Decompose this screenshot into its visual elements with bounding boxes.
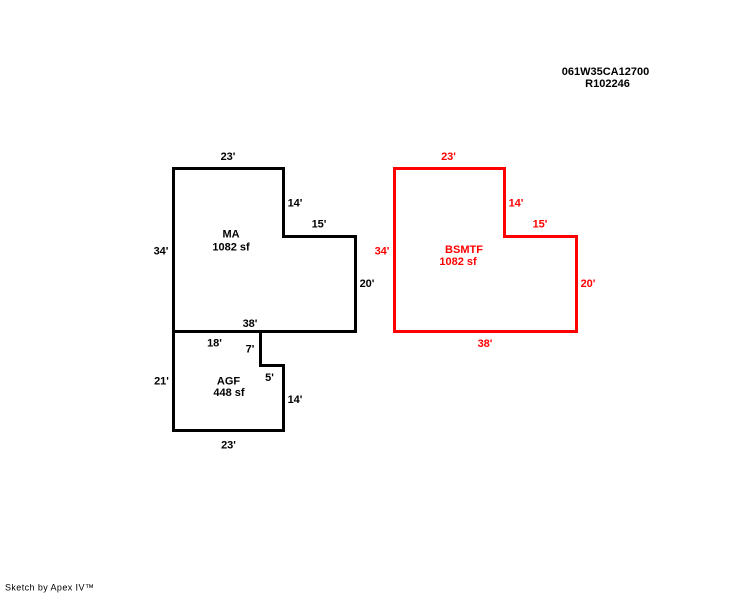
svg-text:14': 14' <box>288 394 303 406</box>
svg-text:5': 5' <box>265 372 274 384</box>
BSMTF outline (basement, red L-shape) <box>395 169 577 332</box>
svg-text:AGF: AGF <box>217 376 241 388</box>
svg-text:448 sf: 448 sf <box>213 387 245 399</box>
svg-text:20': 20' <box>360 278 375 290</box>
svg-text:18': 18' <box>207 338 222 350</box>
svg-text:1082 sf: 1082 sf <box>212 242 250 254</box>
svg-text:14': 14' <box>288 198 303 210</box>
svg-text:38': 38' <box>478 338 493 350</box>
svg-text:23': 23' <box>221 151 236 163</box>
svg-text:BSMTF: BSMTF <box>445 244 483 256</box>
svg-text:1082 sf: 1082 sf <box>439 256 477 268</box>
svg-text:R102246: R102246 <box>585 78 630 90</box>
svg-text:Sketch by Apex IV™: Sketch by Apex IV™ <box>5 583 94 593</box>
svg-text:MA: MA <box>222 229 239 241</box>
svg-text:15': 15' <box>312 219 327 231</box>
MA outline (main area, black L-shape) <box>174 169 356 332</box>
svg-text:23': 23' <box>441 151 456 163</box>
svg-text:38': 38' <box>243 318 258 330</box>
svg-text:14': 14' <box>509 198 524 210</box>
AGF outline (attached garage, black) <box>174 332 284 431</box>
svg-text:15': 15' <box>533 219 548 231</box>
svg-text:21': 21' <box>154 376 169 388</box>
svg-text:23': 23' <box>221 440 236 452</box>
svg-text:34': 34' <box>154 246 169 258</box>
svg-text:061W35CA12700: 061W35CA12700 <box>562 66 649 78</box>
svg-text:34': 34' <box>375 246 390 258</box>
svg-text:20': 20' <box>581 278 596 290</box>
svg-text:7': 7' <box>246 344 255 356</box>
